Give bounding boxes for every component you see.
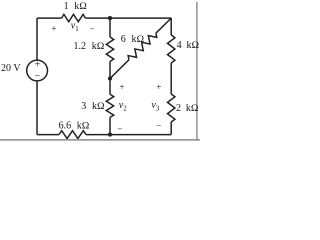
svg-text:20 V: 20 V	[1, 63, 21, 74]
svg-text:+: +	[156, 82, 161, 92]
svg-text:v2: v2	[119, 100, 127, 112]
svg-text:v3: v3	[151, 100, 159, 112]
svg-text:−: −	[90, 24, 95, 34]
svg-text:1.2 kΩ: 1.2 kΩ	[74, 41, 105, 52]
svg-text:6 kΩ: 6 kΩ	[121, 34, 145, 45]
svg-text:1 kΩ: 1 kΩ	[64, 1, 88, 12]
svg-text:−: −	[35, 71, 41, 82]
svg-text:6.6 kΩ: 6.6 kΩ	[59, 121, 90, 132]
svg-text:v1: v1	[71, 21, 79, 33]
svg-text:2 kΩ: 2 kΩ	[176, 103, 199, 114]
svg-text:+: +	[51, 23, 56, 33]
svg-text:−: −	[156, 120, 161, 130]
svg-text:+: +	[35, 60, 41, 71]
svg-text:3 kΩ: 3 kΩ	[81, 101, 105, 112]
svg-text:4 kΩ: 4 kΩ	[177, 40, 200, 51]
svg-text:+: +	[119, 82, 124, 92]
svg-text:−: −	[117, 124, 122, 134]
